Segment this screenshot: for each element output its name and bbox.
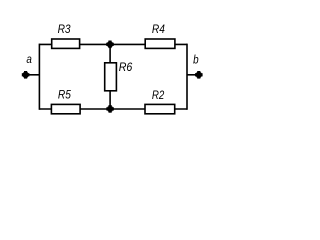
junction bottom node — [106, 105, 114, 113]
resistor R3 — [52, 39, 80, 48]
wire node b stub — [187, 74, 199, 76]
resistor R6 — [105, 63, 117, 91]
svg-text:R3: R3 — [58, 24, 72, 36]
wire R6 branch — [109, 44, 111, 109]
wire right rail — [186, 44, 188, 110]
node b terminal dot — [195, 71, 203, 79]
wire left rail — [38, 44, 40, 110]
svg-text:R4: R4 — [152, 24, 165, 36]
resistor R5 — [51, 104, 80, 113]
node a terminal dot — [22, 71, 30, 79]
resistor R4 — [145, 39, 175, 48]
svg-text:R6: R6 — [119, 62, 133, 74]
svg-text:b: b — [193, 54, 199, 66]
junction top node — [106, 41, 114, 49]
resistor R2 — [145, 104, 175, 113]
svg-text:R5: R5 — [58, 90, 72, 102]
wire top rail — [39, 43, 187, 45]
wire bottom rail — [39, 108, 187, 110]
svg-text:R2: R2 — [152, 90, 165, 102]
svg-text:a: a — [26, 54, 32, 66]
wire node a stub — [26, 74, 40, 76]
